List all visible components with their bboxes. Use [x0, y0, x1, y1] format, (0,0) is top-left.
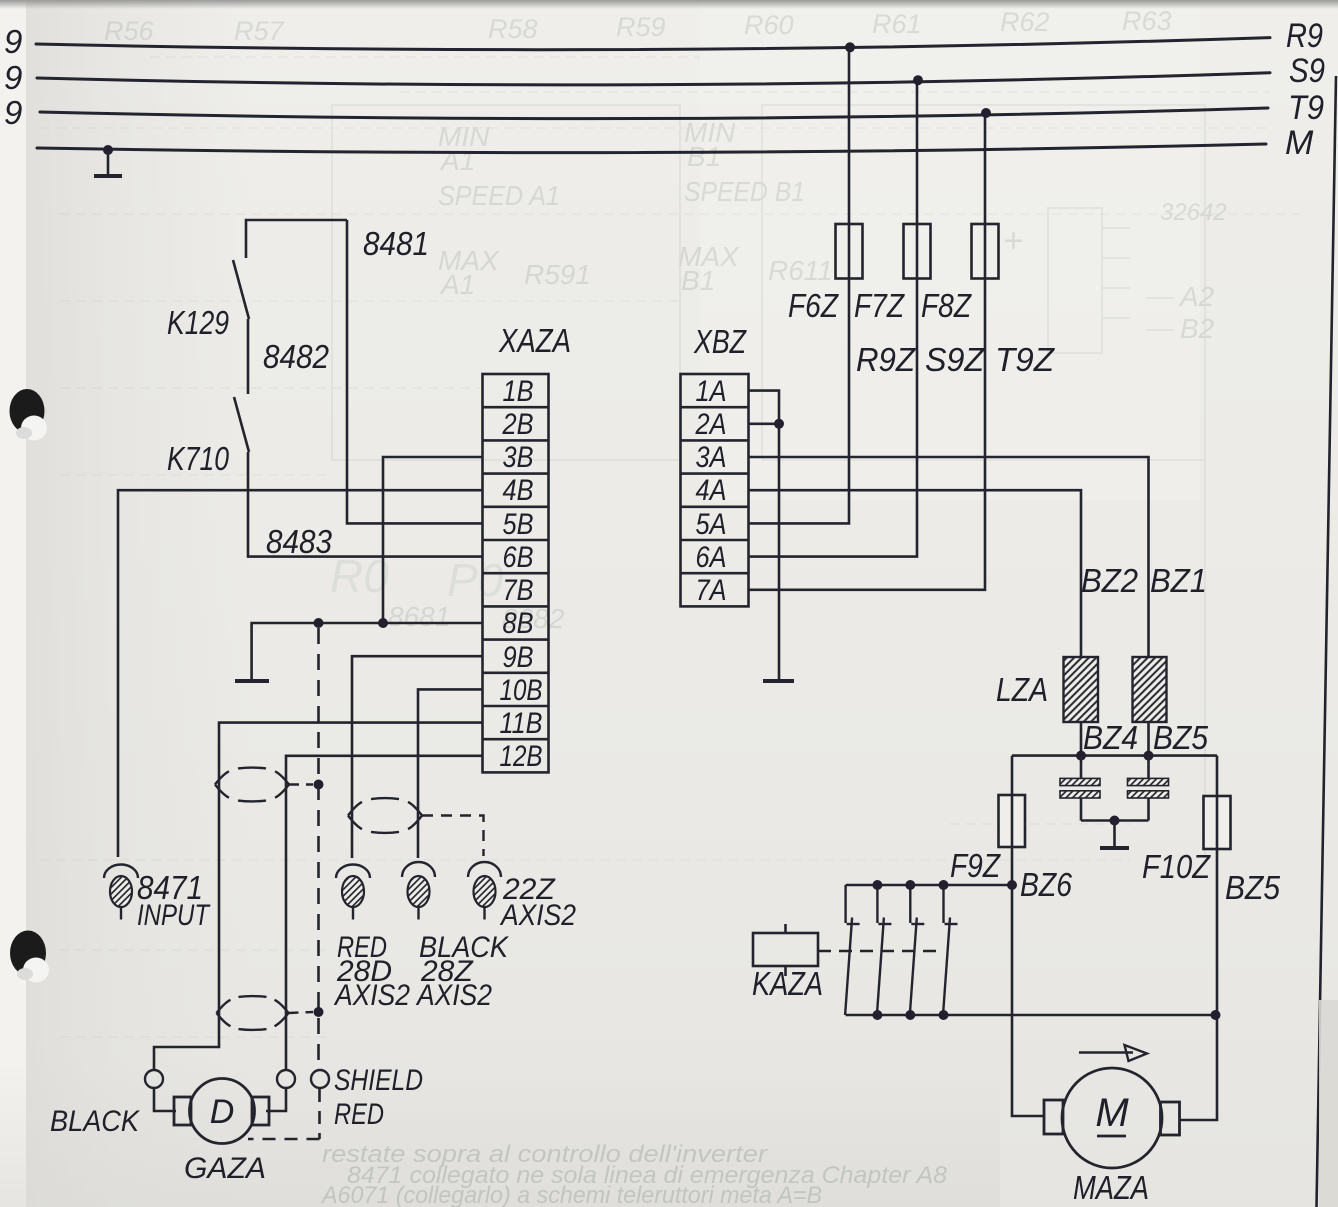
svg-text:8481: 8481	[363, 225, 429, 262]
node bottom rail BZ5	[1211, 1010, 1221, 1020]
svg-text:8681: 8681	[388, 601, 450, 632]
svg-text:12B: 12B	[500, 740, 543, 773]
svg-text:5B: 5B	[503, 508, 534, 541]
contact KAZA pole 3	[910, 885, 925, 1015]
svg-text:10B: 10B	[500, 674, 543, 707]
fuse F9Z	[999, 795, 1026, 847]
ground (2A wire)	[763, 679, 794, 683]
wire 6A / S9Z	[749, 80, 918, 557]
ground on bus M	[94, 145, 122, 176]
svg-text:RED: RED	[334, 1098, 384, 1131]
svg-text:1B: 1B	[503, 375, 534, 408]
bus S9	[37, 73, 1270, 85]
capacitor (left pair, under BZ4)	[1060, 756, 1100, 821]
wire 9B to RED connector	[352, 656, 483, 858]
svg-text:R56: R56	[104, 16, 155, 46]
shield dashed line (from 8B node)	[248, 628, 320, 1139]
contact KAZA pole 4	[943, 885, 958, 1015]
wire 12B to tacho terminal	[286, 756, 483, 1070]
node top rail pole3	[905, 880, 915, 890]
svg-text:F6Z: F6Z	[788, 287, 840, 324]
shield link oval3	[289, 1012, 314, 1013]
wire 8483 vertical to 6B	[248, 452, 483, 557]
wire 8B to ground	[252, 623, 483, 679]
svg-text:7A: 7A	[696, 574, 727, 607]
tacho generator GAZA	[174, 1079, 269, 1144]
svg-text:A2: A2	[1178, 281, 1215, 312]
contactor KAZA coil	[753, 924, 818, 976]
svg-text:M: M	[1285, 124, 1314, 162]
contact K129	[233, 260, 249, 319]
svg-text:32642: 32642	[1160, 199, 1227, 226]
shield oval (11B/12B pair upper)	[215, 771, 229, 784]
svg-text:3B: 3B	[503, 441, 534, 474]
svg-text:6A: 6A	[696, 541, 727, 574]
wire 8481 top stub	[246, 220, 347, 258]
wire BZ5 vertical to motor	[1180, 756, 1218, 1120]
motor MAZA	[1044, 1068, 1180, 1168]
svg-text:T9: T9	[1288, 89, 1324, 127]
svg-text:AXIS2: AXIS2	[499, 899, 576, 932]
svg-text:+: +	[1003, 222, 1023, 260]
node 2A junction	[774, 419, 784, 429]
svg-text:SPEED A1: SPEED A1	[438, 180, 560, 211]
svg-text:XAZA: XAZA	[498, 322, 571, 359]
svg-text:KAZA: KAZA	[752, 965, 823, 1002]
svg-text:9: 9	[4, 59, 22, 96]
svg-text:R58: R58	[488, 14, 538, 44]
svg-text:4B: 4B	[503, 474, 534, 507]
svg-text:F9Z: F9Z	[950, 847, 1002, 884]
svg-text:BZ1: BZ1	[1150, 562, 1207, 599]
contact KAZA pole 2	[877, 885, 892, 1015]
node shield / oval1	[314, 780, 324, 790]
svg-text:R611: R611	[768, 255, 833, 286]
svg-text:R57: R57	[234, 16, 285, 46]
connector 8471 INPUT	[104, 865, 138, 920]
page right edge	[1317, 76, 1337, 1207]
svg-text:BZ4: BZ4	[1083, 719, 1138, 756]
node bottom rail pole3	[905, 1010, 915, 1020]
wire 11B to tacho terminal	[154, 723, 483, 1070]
svg-text:R59: R59	[616, 12, 666, 42]
rotation arrow	[1079, 1045, 1147, 1061]
wire 1A to 2A	[749, 391, 780, 424]
svg-text:INPUT: INPUT	[137, 899, 211, 932]
fuse F6Z	[836, 224, 863, 279]
svg-text:BZ5: BZ5	[1225, 869, 1281, 906]
wire 2A to ground	[749, 424, 780, 679]
svg-text:11B: 11B	[500, 707, 543, 740]
ground (capacitor common)	[1100, 821, 1129, 849]
svg-text:9B: 9B	[503, 641, 534, 674]
node BZ4	[1076, 751, 1086, 761]
connector RED 28D	[336, 865, 370, 920]
svg-text:SPEED B1: SPEED B1	[684, 176, 805, 207]
svg-text:R591: R591	[524, 259, 591, 290]
wire 3A to BZ1	[749, 457, 1149, 756]
svg-text:F8Z: F8Z	[921, 287, 973, 324]
svg-text:MAZA: MAZA	[1073, 1169, 1149, 1206]
svg-text:SHIELD: SHIELD	[334, 1064, 423, 1097]
tacho terminal (black lead)	[145, 1070, 163, 1088]
svg-text:P0: P0	[447, 554, 504, 606]
shield oval (11B/12B pair lower)	[217, 1000, 231, 1013]
contact K710	[234, 397, 249, 452]
binder hole lower	[10, 931, 49, 983]
svg-text:9: 9	[4, 23, 22, 60]
wire red lead to tacho	[266, 1088, 286, 1111]
contact KAZA pole 1	[845, 885, 860, 1015]
svg-text:S9: S9	[1289, 52, 1325, 90]
KAZA actuation dashed link	[818, 950, 937, 953]
fuse F8Z	[972, 224, 999, 279]
svg-text:1A: 1A	[696, 375, 727, 408]
wire black lead to tacho	[154, 1088, 176, 1111]
svg-text:B1: B1	[681, 265, 715, 296]
wire 3B down to node 8B	[383, 457, 483, 623]
svg-text:D: D	[210, 1093, 235, 1131]
wire 4B to INPUT connector	[118, 490, 483, 857]
svg-text:BZ5: BZ5	[1153, 719, 1209, 756]
node top rail pole2	[872, 880, 882, 890]
node R9 tap	[845, 42, 855, 52]
wire 5A / R9Z	[749, 47, 850, 523]
shield link oval2 to 22Z	[422, 816, 484, 857]
node bottom rail pole2	[872, 1010, 882, 1020]
node on 8B wire (dashed shield tap)	[314, 618, 324, 628]
svg-text:R61: R61	[872, 9, 922, 39]
svg-text:8483: 8483	[266, 523, 333, 560]
svg-text:BZ6: BZ6	[1020, 866, 1073, 903]
wire 4A to BZ2	[749, 490, 1082, 755]
wire BZ4/BZ5 junction row	[1012, 754, 1217, 757]
shield link oval1	[289, 783, 313, 785]
svg-text:T9Z: T9Z	[995, 341, 1056, 378]
connector 22Z	[468, 862, 501, 919]
node shield / oval3	[314, 1007, 324, 1017]
wire 8481 vertical to 5B	[347, 220, 483, 523]
node T9 tap	[981, 108, 991, 118]
node S9 tap	[913, 75, 923, 85]
tacho terminal (red lead)	[277, 1070, 295, 1088]
wire contact top rail	[846, 884, 1012, 887]
node 3B/8B junction	[378, 618, 388, 628]
fuse F7Z	[904, 224, 931, 279]
svg-text:5A: 5A	[696, 508, 727, 541]
svg-text:2B: 2B	[502, 408, 534, 441]
inductor LZA (right, on BZ1 wire)	[1133, 657, 1167, 722]
wire 8482 segment	[247, 319, 250, 394]
svg-text:2A: 2A	[695, 408, 727, 441]
node BZ5	[1144, 751, 1154, 761]
svg-text:LZA: LZA	[996, 671, 1048, 708]
svg-text:BZ2: BZ2	[1081, 562, 1138, 599]
svg-text:8482: 8482	[263, 338, 329, 375]
svg-text:6B: 6B	[503, 541, 534, 574]
svg-text:R63: R63	[1122, 6, 1172, 36]
fuse F10Z	[1204, 796, 1231, 849]
svg-text:S9Z: S9Z	[925, 341, 986, 378]
ground (8B wire)	[235, 679, 269, 683]
svg-text:BLACK: BLACK	[50, 1105, 141, 1138]
svg-text:8B: 8B	[503, 607, 534, 640]
capacitor (right pair, under BZ5)	[1128, 756, 1169, 821]
svg-text:R62: R62	[1000, 7, 1050, 37]
svg-text:3A: 3A	[696, 441, 727, 474]
wire 7A / T9Z	[749, 113, 986, 590]
wire capacitor common	[1081, 819, 1149, 822]
terminal block XBZ	[681, 374, 749, 606]
svg-text:9: 9	[4, 94, 22, 131]
node bottom rail pole4	[939, 1010, 949, 1020]
bus R9	[36, 38, 1270, 50]
svg-text:K129: K129	[167, 304, 229, 341]
svg-text:R9Z: R9Z	[856, 341, 917, 378]
shield oval (9B/10B pair)	[348, 802, 362, 816]
node top rail pole4	[939, 880, 949, 890]
svg-text:XBZ: XBZ	[693, 323, 747, 360]
svg-text:A1: A1	[439, 145, 475, 176]
wire BZ6 vertical to motor	[1012, 756, 1044, 1116]
svg-text:A6071 (collegarlo) a schemi te: A6071 (collegarlo) a schemi teleruttori …	[320, 1182, 822, 1207]
svg-text:F7Z: F7Z	[854, 287, 906, 324]
svg-text:F10Z: F10Z	[1142, 848, 1212, 885]
svg-text:7B: 7B	[503, 574, 534, 607]
svg-text:A1: A1	[439, 269, 475, 300]
bus M	[37, 144, 1266, 153]
svg-text:R9: R9	[1286, 17, 1323, 55]
inductor LZA (left, on BZ2 wire)	[1064, 657, 1099, 722]
svg-text:R60: R60	[744, 10, 794, 40]
terminal block XAZA	[483, 374, 549, 772]
svg-text:B2: B2	[1180, 313, 1215, 344]
node capacitor common	[1110, 816, 1120, 826]
wire contact bottom rail	[846, 1014, 1216, 1017]
bus T9	[40, 108, 1268, 119]
connector BLACK 28Z	[402, 862, 435, 919]
svg-text:M: M	[1095, 1091, 1129, 1135]
tacho terminal (shield)	[311, 1070, 329, 1088]
binder hole upper	[10, 389, 48, 441]
svg-text:4A: 4A	[696, 474, 727, 507]
svg-text:AXIS2: AXIS2	[415, 979, 492, 1012]
svg-text:K710: K710	[167, 440, 230, 477]
node top rail BZ6	[1007, 880, 1017, 890]
wire 10B to BLACK connector	[418, 689, 483, 858]
svg-text:AXIS2: AXIS2	[333, 979, 410, 1012]
svg-text:B1: B1	[687, 141, 721, 172]
svg-text:GAZA: GAZA	[184, 1152, 266, 1185]
